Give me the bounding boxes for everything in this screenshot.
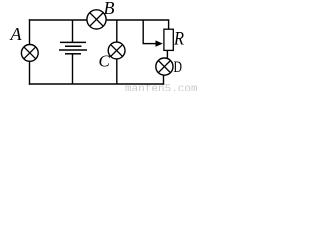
svg-text:B: B: [104, 0, 115, 18]
svg-text:A: A: [10, 24, 23, 44]
svg-text:R: R: [173, 29, 184, 50]
svg-text:D: D: [174, 59, 183, 76]
svg-text:C: C: [99, 52, 111, 71]
